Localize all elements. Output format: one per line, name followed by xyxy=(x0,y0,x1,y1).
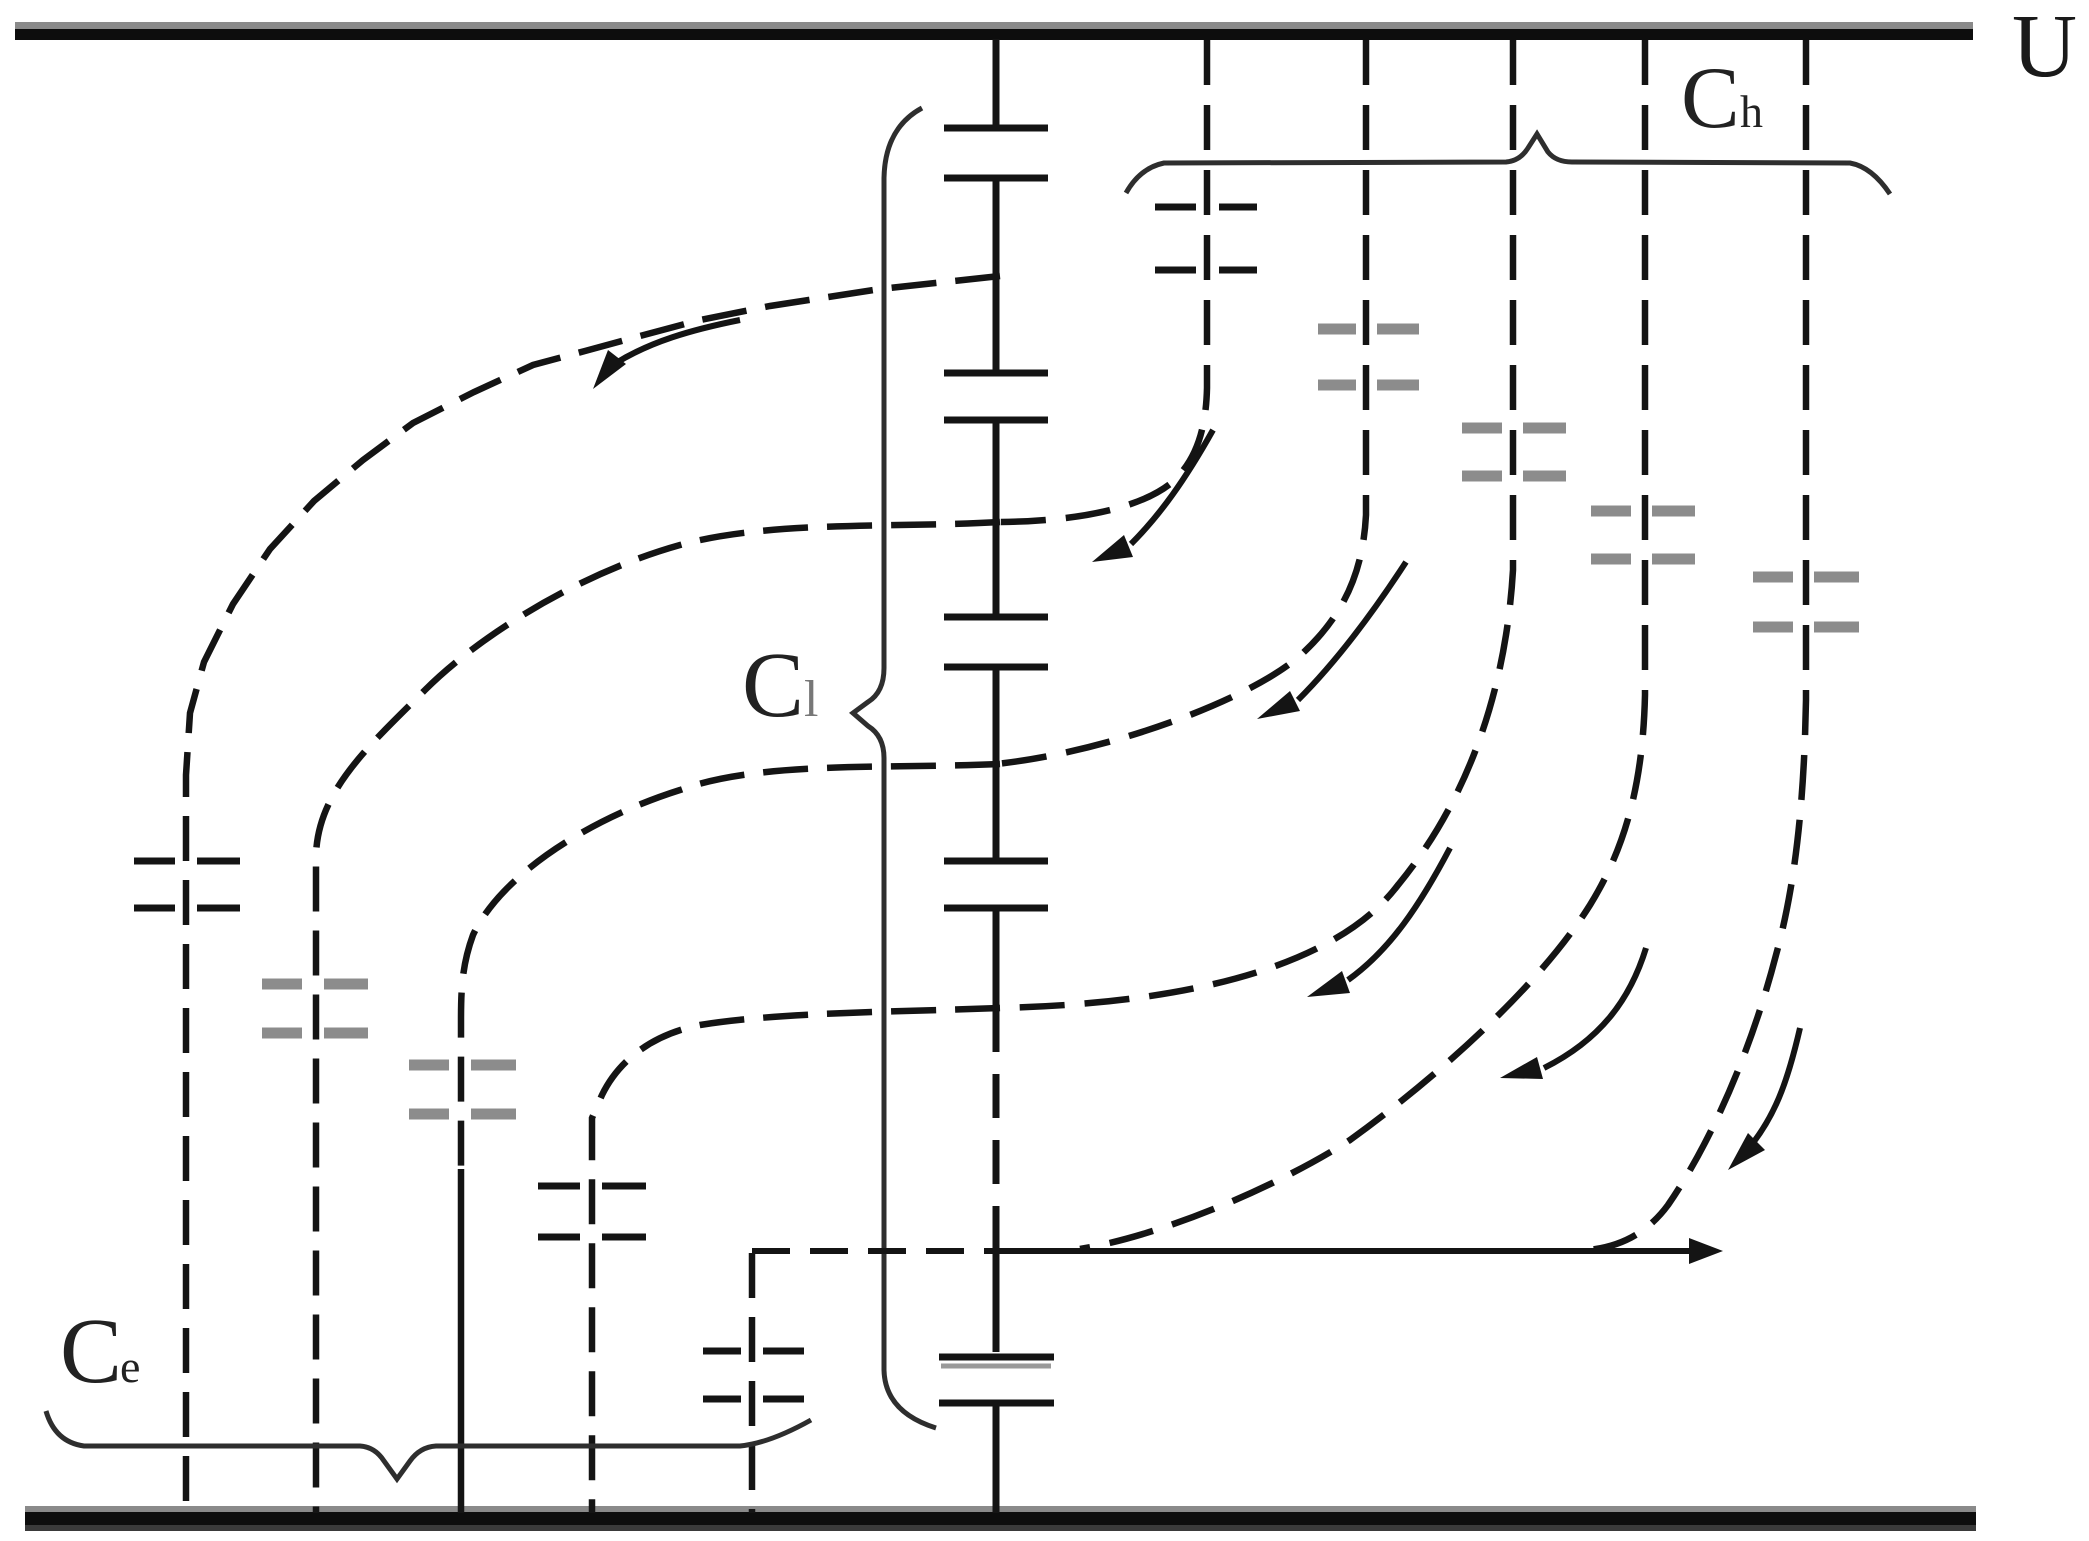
wire: stray line R1 to HV lead xyxy=(996,40,1207,522)
wire: stray line R3 to HV lead xyxy=(996,40,1513,1008)
svg-text:l: l xyxy=(804,671,818,728)
capacitor Ch1 xyxy=(1155,207,1257,270)
capacitor Ce2 xyxy=(262,984,368,1033)
capacitor Ce5 xyxy=(703,1351,804,1399)
wire: stray line R5 to HV lead xyxy=(1575,40,1806,1251)
wire: earth streamline A xyxy=(186,276,1000,1513)
wire: earth streamline C solid lower section xyxy=(458,1169,465,1513)
svg-text:C: C xyxy=(60,1300,122,1403)
brace for Ch group xyxy=(1126,134,1890,194)
capacitor Ce3 xyxy=(409,1065,516,1114)
capacitor C1-1 xyxy=(944,128,1048,178)
capacitor Ch3 xyxy=(1462,428,1566,476)
svg-text:U: U xyxy=(2012,0,2077,96)
svg-text:h: h xyxy=(1740,86,1763,137)
flow arrow on streamline A xyxy=(593,320,740,389)
capacitor Ch5 xyxy=(1753,577,1859,627)
flow arrow on streamline R3 xyxy=(1307,848,1450,997)
svg-text:C: C xyxy=(1681,50,1740,147)
wire: bottom node dashed segment xyxy=(752,1248,996,1254)
wire: earth streamline D xyxy=(592,1008,1000,1513)
wire: stray line R2 to HV lead xyxy=(996,40,1366,764)
brace for C1 column xyxy=(853,108,936,1428)
label Ch xyxy=(1681,50,1763,147)
svg-text:e: e xyxy=(120,1341,140,1392)
top busbar (HV lead U) xyxy=(15,22,1973,40)
capacitor Ce4 xyxy=(538,1186,646,1237)
wire: earth streamline B xyxy=(316,522,1000,1513)
label C1 xyxy=(742,634,818,737)
capacitor C1-5 xyxy=(939,1357,1054,1403)
bottom busbar (earth) xyxy=(25,1506,1976,1531)
capacitor Ce1 xyxy=(134,861,240,908)
wire: earth streamline C xyxy=(461,764,1000,1169)
svg-text:C: C xyxy=(742,634,804,737)
flow arrow on streamline R1 xyxy=(1092,430,1213,562)
capacitor C1-2 xyxy=(944,373,1048,420)
capacitor Ch4 xyxy=(1591,511,1695,559)
capacitor C1-4 xyxy=(944,861,1048,908)
wire: earth branch E from node xyxy=(749,1253,756,1513)
wire: series column segments xyxy=(993,39,1000,1513)
capacitor C1-3 xyxy=(944,617,1048,667)
flow arrow on streamline R5 xyxy=(1728,1028,1800,1170)
brace for Ce group xyxy=(46,1411,811,1479)
wire: stray line R4 to HV lead xyxy=(1080,40,1645,1249)
wire: bottom node solid line with arrow xyxy=(996,1238,1723,1264)
capacitor Ch2 xyxy=(1318,329,1419,385)
label Ce xyxy=(60,1300,140,1403)
flow arrow on streamline R4 xyxy=(1500,948,1646,1079)
flow arrow on streamline R2 xyxy=(1257,562,1406,719)
